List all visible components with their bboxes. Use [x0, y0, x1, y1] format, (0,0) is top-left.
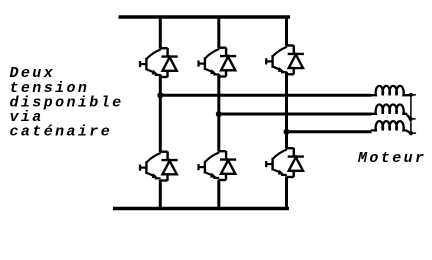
- IGBT Q1 with antiparallel diode (top leg1): [140, 48, 178, 77]
- DC bus positive rail (top): [119, 15, 291, 18]
- node phase B junction dot: [216, 111, 222, 117]
- IGBT Q3 with antiparallel diode (top leg2): [198, 48, 236, 77]
- wire motor star-point bus: [410, 95, 412, 133]
- svg-text:Moteur: Moteur: [357, 150, 426, 167]
- motor winding L1 (phase A): [371, 86, 411, 95]
- wire leg2 collector segment: [217, 16, 220, 49]
- DC bus negative rail (bottom): [113, 207, 289, 210]
- motor winding L3 (phase C): [371, 121, 411, 133]
- wire leg3 mid segment: [285, 72, 288, 149]
- node star junction 2: [409, 117, 416, 121]
- node star junction 1: [409, 93, 416, 97]
- wire leg3 bottom segment: [285, 177, 288, 211]
- node star junction 3: [409, 131, 416, 135]
- node phase A junction dot: [157, 92, 163, 98]
- IGBT Q6 with antiparallel diode (bottom leg3): [266, 148, 304, 177]
- wire leg3 collector segment: [285, 16, 288, 46]
- svg-text:caténaire: caténaire: [10, 124, 113, 141]
- label: Deux tension disponible via caténaire: [10, 65, 124, 140]
- IGBT Q4 with antiparallel diode (bottom leg2): [198, 151, 236, 180]
- phase B output wire: [219, 113, 372, 116]
- motor winding L2 (phase B): [371, 104, 411, 118]
- wire leg2 bottom segment: [217, 180, 220, 211]
- wire leg2 mid segment: [217, 74, 220, 152]
- phase A output wire: [160, 94, 371, 97]
- IGBT Q5 with antiparallel diode (top leg3): [266, 45, 304, 74]
- node phase C junction dot: [284, 129, 290, 135]
- wire leg1 collector segment: [159, 16, 162, 49]
- IGBT Q2 with antiparallel diode (bottom leg1): [140, 152, 178, 181]
- wire leg1 bottom segment: [159, 180, 162, 210]
- wire leg1 mid segment: [159, 75, 162, 153]
- phase C output wire: [287, 130, 372, 133]
